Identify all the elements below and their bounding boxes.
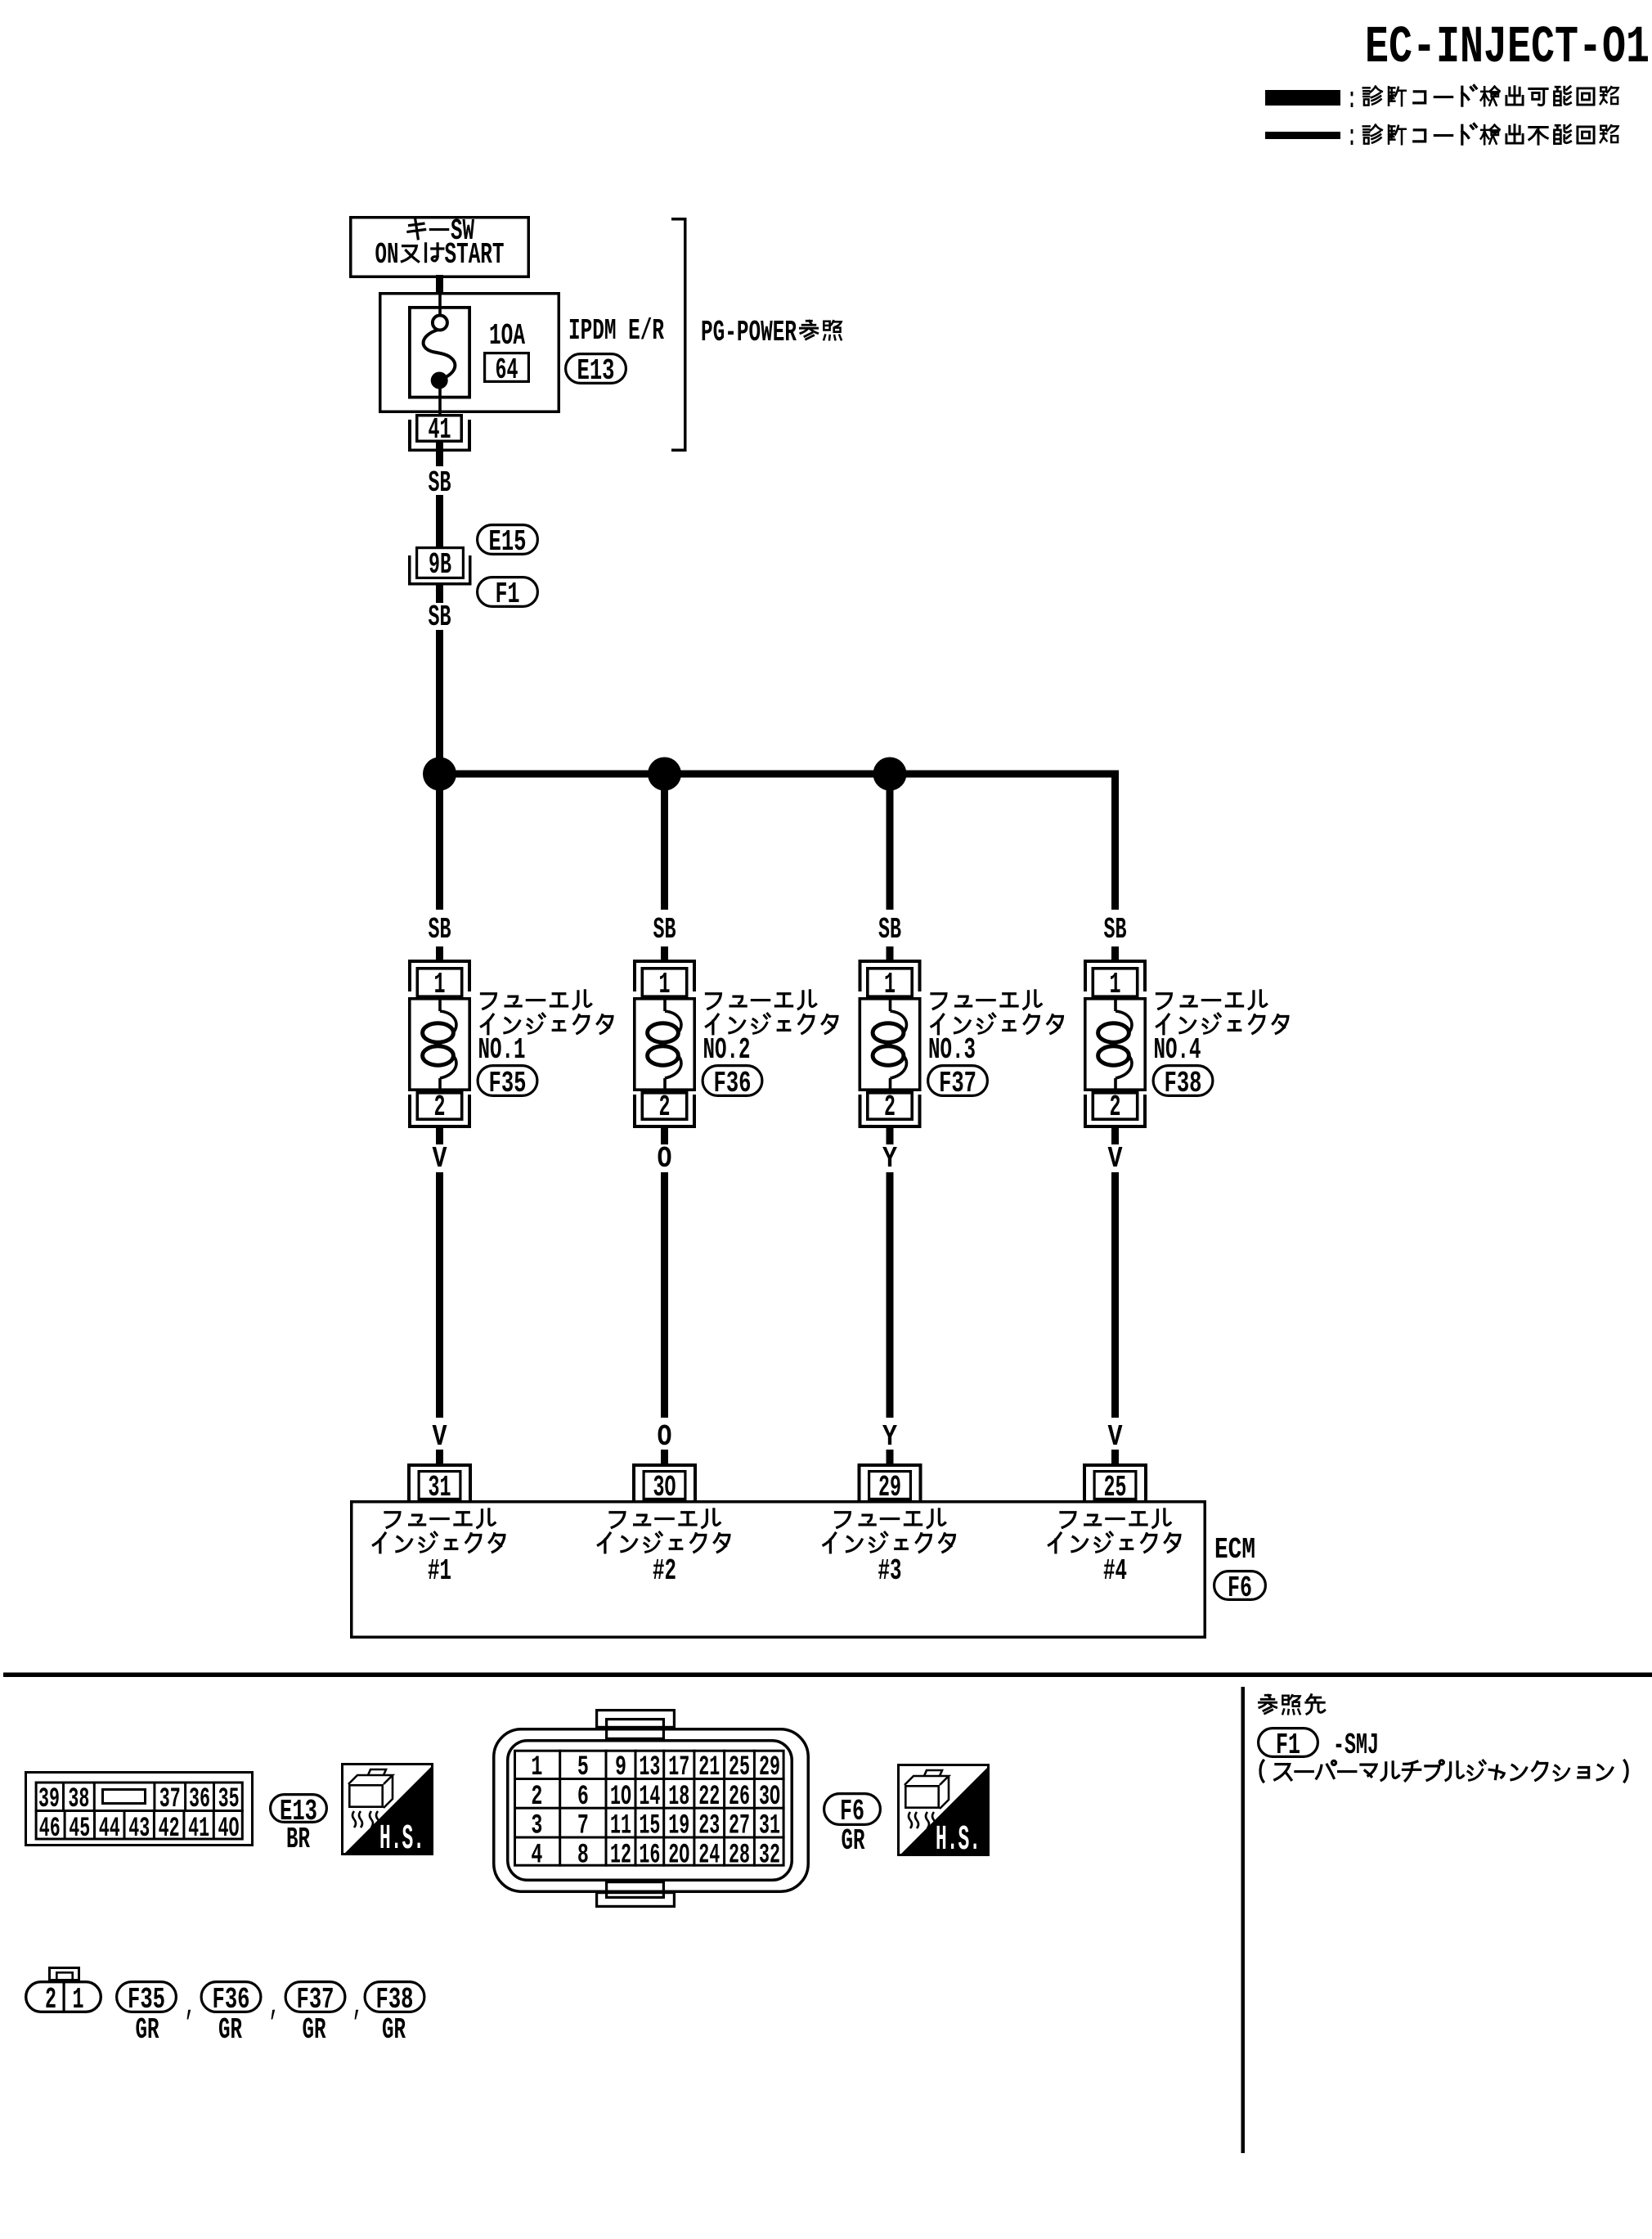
svg-text:12: 12 [610, 1840, 631, 1871]
svg-text:25: 25 [729, 1752, 750, 1783]
svg-text:ON: ON [375, 238, 399, 272]
svg-text:-SMJ: -SMJ [1333, 1729, 1379, 1762]
svg-text:4: 4 [531, 1840, 542, 1871]
svg-text:V: V [1108, 1142, 1123, 1176]
svg-text:27: 27 [729, 1811, 750, 1842]
svg-text:NO.4: NO.4 [1154, 1033, 1201, 1067]
svg-text:31: 31 [759, 1811, 780, 1842]
svg-text:GR: GR [382, 2013, 406, 2047]
svg-text:1OA: 1OA [489, 319, 525, 353]
svg-text:#4: #4 [1103, 1554, 1127, 1588]
svg-text:13: 13 [639, 1752, 660, 1783]
svg-text:9: 9 [615, 1752, 626, 1783]
svg-text:,: , [269, 1989, 279, 2023]
svg-text:64: 64 [496, 353, 518, 387]
svg-text:BR: BR [286, 1823, 310, 1856]
svg-text:7: 7 [577, 1811, 589, 1842]
svg-text:1: 1 [1110, 968, 1121, 1001]
svg-text:ECM: ECM [1214, 1533, 1255, 1567]
svg-text:24: 24 [698, 1840, 720, 1871]
svg-text:3: 3 [531, 1811, 542, 1842]
svg-text:E13: E13 [577, 354, 615, 388]
svg-text:41: 41 [429, 413, 451, 447]
svg-text:2: 2 [531, 1782, 542, 1813]
svg-text:1: 1 [884, 968, 896, 1001]
svg-text:F6: F6 [840, 1795, 864, 1828]
svg-text:37: 37 [159, 1784, 181, 1815]
svg-text:SB: SB [878, 913, 901, 946]
svg-text:IPDM E/R: IPDM E/R [568, 314, 664, 348]
svg-text:3O: 3O [759, 1782, 780, 1813]
svg-text:,: , [185, 1989, 195, 2023]
svg-text:F36: F36 [213, 1983, 250, 2016]
svg-text:32: 32 [759, 1840, 780, 1871]
svg-text:22: 22 [698, 1782, 720, 1813]
svg-text:14: 14 [639, 1782, 660, 1813]
svg-text:5: 5 [577, 1752, 589, 1783]
svg-text:PG-POWER: PG-POWER [701, 316, 797, 349]
svg-text:H.S.: H.S. [936, 1819, 981, 1859]
svg-text:E15: E15 [489, 525, 527, 559]
svg-text:EC-INJECT-O1: EC-INJECT-O1 [1365, 19, 1650, 78]
svg-text:SB: SB [1104, 913, 1127, 946]
svg-text:V: V [433, 1420, 447, 1454]
svg-text:29: 29 [759, 1752, 780, 1783]
svg-text:#2: #2 [653, 1554, 676, 1588]
svg-text:SB: SB [429, 600, 451, 634]
svg-text:15: 15 [639, 1811, 660, 1842]
svg-text:6: 6 [577, 1782, 589, 1813]
svg-text:F36: F36 [714, 1067, 752, 1100]
svg-text:46: 46 [39, 1814, 61, 1845]
svg-text:18: 18 [668, 1782, 689, 1813]
svg-text:F35: F35 [489, 1067, 527, 1100]
svg-text:2: 2 [1110, 1090, 1121, 1124]
svg-text:43: 43 [128, 1814, 150, 1845]
svg-text:36: 36 [189, 1784, 210, 1815]
svg-text:25: 25 [1104, 1471, 1127, 1504]
svg-text:H.S.: H.S. [379, 1819, 424, 1859]
svg-text:V: V [433, 1142, 447, 1176]
svg-text:2: 2 [884, 1090, 896, 1124]
svg-text:F37: F37 [297, 1983, 334, 2016]
svg-text:1: 1 [434, 968, 446, 1001]
svg-text:NO.1: NO.1 [478, 1033, 526, 1067]
svg-text:F35: F35 [128, 1983, 165, 2016]
svg-text:F37: F37 [939, 1067, 976, 1100]
svg-text:GR: GR [218, 2013, 242, 2047]
svg-text:4O: 4O [218, 1814, 240, 1845]
svg-text:F38: F38 [376, 1983, 414, 2016]
svg-text:42: 42 [159, 1814, 180, 1845]
svg-text:2: 2 [45, 1983, 56, 2016]
svg-text:45: 45 [69, 1814, 90, 1845]
svg-text:,: , [352, 1989, 362, 2023]
svg-text:29: 29 [878, 1471, 901, 1504]
svg-text:9B: 9B [429, 548, 451, 582]
svg-text:19: 19 [668, 1811, 689, 1842]
svg-text:2: 2 [659, 1090, 671, 1124]
svg-text:1: 1 [531, 1752, 542, 1783]
svg-text:35: 35 [218, 1784, 240, 1815]
svg-text::: : [1347, 120, 1357, 154]
svg-text:38: 38 [68, 1784, 89, 1815]
svg-text:21: 21 [698, 1752, 720, 1783]
svg-text:26: 26 [729, 1782, 750, 1813]
svg-text:41: 41 [188, 1814, 209, 1845]
svg-text:44: 44 [99, 1814, 120, 1845]
svg-text:SB: SB [429, 466, 451, 500]
svg-text:F1: F1 [1276, 1729, 1300, 1762]
svg-text:1O: 1O [610, 1782, 631, 1813]
svg-text::: : [1347, 83, 1357, 116]
svg-text:2O: 2O [668, 1840, 689, 1871]
svg-text:1: 1 [659, 968, 671, 1001]
svg-text:3O: 3O [653, 1471, 676, 1504]
svg-text:31: 31 [429, 1471, 451, 1504]
svg-text:#1: #1 [428, 1554, 451, 1588]
svg-text:1: 1 [73, 1983, 84, 2016]
svg-text:23: 23 [698, 1811, 720, 1842]
svg-text:Y: Y [882, 1142, 897, 1176]
svg-text:GR: GR [842, 1824, 865, 1858]
svg-text:39: 39 [38, 1784, 60, 1815]
svg-text:GR: GR [303, 2013, 326, 2047]
svg-text:NO.3: NO.3 [928, 1033, 976, 1067]
svg-text:Y: Y [882, 1420, 897, 1454]
svg-text:SB: SB [429, 913, 451, 946]
svg-text:F38: F38 [1165, 1067, 1202, 1100]
svg-text:#3: #3 [878, 1554, 902, 1588]
svg-text:F6: F6 [1228, 1571, 1252, 1605]
svg-text:28: 28 [729, 1840, 750, 1871]
svg-text:O: O [658, 1142, 672, 1176]
svg-text:NO.2: NO.2 [703, 1033, 751, 1067]
svg-text:O: O [658, 1420, 672, 1454]
svg-text:V: V [1108, 1420, 1123, 1454]
svg-text:START: START [445, 238, 505, 272]
svg-text:16: 16 [639, 1840, 660, 1871]
svg-text:11: 11 [610, 1811, 631, 1842]
svg-text:SB: SB [653, 913, 676, 946]
svg-text:2: 2 [434, 1090, 446, 1124]
svg-text:17: 17 [668, 1752, 689, 1783]
svg-text:GR: GR [136, 2013, 159, 2047]
svg-text:F1: F1 [496, 578, 520, 611]
svg-text:8: 8 [577, 1840, 589, 1871]
